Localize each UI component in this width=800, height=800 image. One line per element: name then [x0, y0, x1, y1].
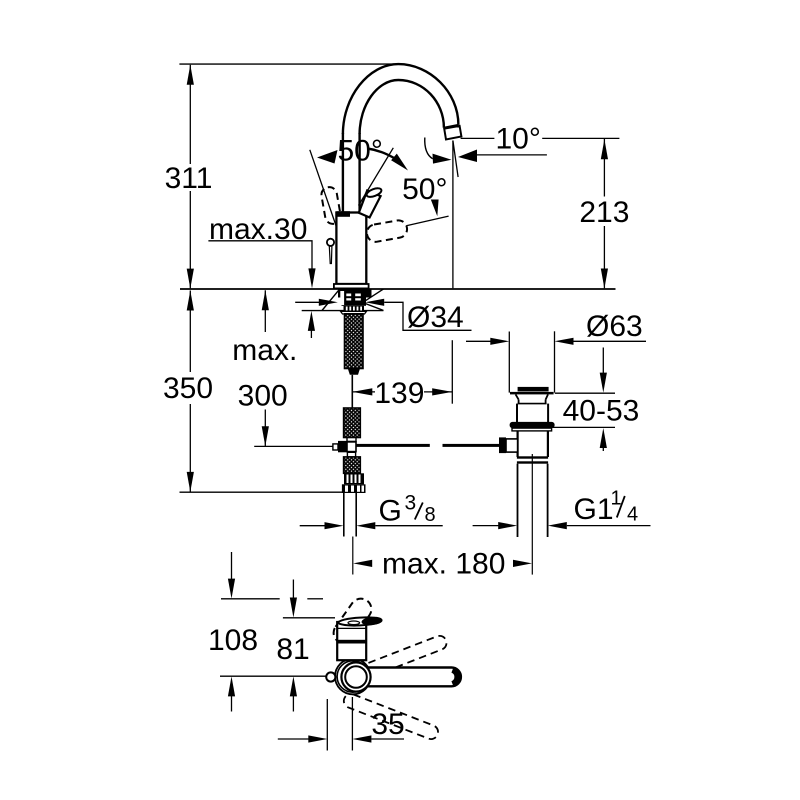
shank tip [348, 369, 360, 375]
knob stem [329, 246, 332, 263]
svg-text:81: 81 [276, 633, 309, 666]
spout joint line [444, 125, 459, 128]
svg-text:10°: 10° [496, 123, 541, 156]
body top notch [336, 211, 350, 217]
40-53 up arrow [600, 428, 607, 448]
pivot boss [345, 666, 367, 688]
plan spout band [337, 640, 366, 644]
dashed lever right position [366, 219, 409, 243]
neck joint line [518, 403, 547, 405]
faucet body [336, 213, 366, 285]
dim 311 line lower [189, 191, 191, 288]
flex hose right line [355, 493, 357, 537]
139 right arrow [432, 388, 452, 395]
escutcheon outer circle [335, 659, 371, 695]
Ø34 dim tail left [295, 301, 319, 303]
escutcheon [334, 284, 369, 288]
plan knob [326, 672, 335, 681]
81 down arrow tail [292, 580, 294, 600]
max.300 down arrow [262, 426, 269, 446]
flange taper right [546, 394, 548, 399]
upper hose hatch block [344, 408, 361, 438]
311 up arrow [187, 65, 194, 85]
311 down arrow [187, 269, 194, 289]
plan lens white inner [348, 621, 360, 625]
max180 left arrow [353, 560, 372, 567]
81 top reference line [283, 617, 335, 619]
hose centerline [352, 537, 354, 575]
tailpipe sides [517, 464, 519, 537]
svg-text:1: 1 [611, 488, 622, 510]
40-53 down arrow tail [602, 348, 604, 375]
riser pipe left [342, 133, 344, 213]
svg-text:G: G [379, 495, 402, 528]
max.30 underline leader [208, 241, 312, 270]
50deg no.2 arrowhead [431, 200, 439, 217]
Ø63 extension right [554, 331, 556, 392]
svg-text:Ø63: Ø63 [586, 310, 643, 343]
G3/8 dim tail left [300, 525, 325, 527]
dim 139 line left [352, 391, 375, 393]
50deg no.1 right arc [368, 149, 397, 160]
stack ribs block [344, 306, 365, 311]
81 up arrow [290, 676, 297, 696]
35 dim tail left [278, 738, 309, 740]
angle leg line C (dashed lever axis) [406, 216, 448, 226]
spout curve inner [360, 80, 444, 134]
stack slots row1 [346, 294, 351, 297]
108 down arrow tail [231, 552, 233, 580]
Ø34 left arrow [319, 299, 338, 306]
max.300 bottom reference line [254, 445, 340, 447]
lever pivot cap [341, 662, 370, 691]
stack slot vertical [340, 291, 344, 305]
350 down arrow [187, 472, 194, 492]
lower hose hatch block [344, 457, 361, 473]
plan spout rect [337, 622, 366, 660]
upper body sides [516, 404, 518, 423]
108 up arrow [228, 676, 235, 696]
ribbed coupling [344, 473, 364, 484]
plan spout joint line [337, 627, 366, 629]
Ø34 right arrow [365, 299, 384, 306]
dashed lever up position [350, 634, 448, 683]
deck break diagonal right upper [365, 289, 384, 301]
seal ring [510, 422, 555, 428]
G3/8 left arrow [325, 522, 344, 529]
supply tube [351, 375, 353, 408]
drain coupling white [506, 439, 518, 452]
G3/8 right arrow [356, 522, 375, 529]
dim 311 line upper [189, 65, 191, 164]
350 bottom reference line [180, 491, 343, 493]
G1 1/4 dim tail left [473, 525, 499, 527]
drain plug cap [518, 387, 549, 392]
lever cap ellipse [365, 187, 382, 199]
washer flange [341, 311, 367, 314]
40-53 top reference [555, 392, 615, 394]
svg-text:G1: G1 [574, 493, 614, 526]
35 extension left [326, 699, 328, 751]
svg-text:8: 8 [425, 504, 436, 526]
G1 1/4 left arrow [498, 522, 517, 529]
35 extension right [351, 697, 353, 751]
Ø63 extension left [508, 332, 510, 393]
drain coupling black [499, 437, 506, 453]
lever bar [343, 668, 461, 687]
10deg left arrowhead [433, 154, 452, 164]
35 left arrow [308, 735, 327, 742]
40-53 down arrow [600, 373, 607, 393]
10deg right arrowhead [458, 150, 477, 163]
svg-text:40-53: 40-53 [563, 395, 640, 428]
108 top reference line seg2 [307, 598, 323, 600]
spout curve outer [343, 64, 459, 134]
angle leg line B (right, along lever) [359, 148, 394, 206]
svg-text:213: 213 [579, 196, 629, 229]
Ø63 dim tail right [574, 340, 647, 342]
threaded shank [345, 314, 364, 369]
139 left arrow [352, 388, 372, 395]
dim 350 line upper [189, 291, 191, 373]
mounting stack block [338, 290, 372, 298]
drain centerline [531, 454, 533, 575]
G3/8 dim tail right [375, 525, 442, 527]
10deg label left line [461, 137, 495, 139]
svg-text:Ø34: Ø34 [407, 301, 464, 334]
G1 1/4 dim tail right [567, 525, 651, 527]
svg-text:311: 311 [165, 162, 213, 195]
coupling nut [342, 484, 366, 493]
drain flange plate [510, 392, 554, 395]
svg-text:35: 35 [371, 708, 404, 741]
clevis small left [333, 444, 338, 450]
center reference line [220, 675, 327, 677]
max.30 down arrow [308, 268, 315, 288]
water stream vertical line upper [452, 141, 454, 289]
clevis black [338, 441, 347, 452]
Ø63 dim tail left [466, 340, 491, 342]
50deg no.1 right arrowhead [391, 154, 408, 171]
213 down arrow [601, 269, 608, 289]
svg-text:max.: max. [232, 334, 297, 367]
solid lever [359, 191, 381, 218]
350 up arrow [187, 291, 194, 311]
max.300 dim line upper [264, 290, 266, 332]
svg-text:350: 350 [163, 372, 213, 405]
deck break diagonal right lower [365, 303, 384, 310]
svg-text:108: 108 [208, 624, 258, 657]
escutcheon inner circle [337, 661, 368, 692]
svg-text:50°: 50° [402, 173, 447, 206]
35 right arrow [352, 735, 371, 742]
deck bottom line [302, 310, 384, 312]
10deg label right line [542, 137, 619, 139]
svg-text:4: 4 [627, 504, 638, 526]
stem below clevis [347, 452, 355, 457]
flex hose left line [343, 493, 345, 537]
pop-up rod left segment [356, 444, 430, 447]
dim 350 line lower [189, 404, 191, 492]
40-53 bottom reference [552, 426, 615, 428]
10deg horizontal reference line [476, 154, 547, 156]
water stream vertical line lower [451, 340, 453, 404]
svg-text:max. 180: max. 180 [382, 548, 505, 581]
svg-text:300: 300 [238, 380, 288, 413]
108 down arrow [228, 579, 235, 599]
50deg no.1 left arrowhead [317, 150, 338, 164]
dashed lever left position [320, 186, 342, 225]
max180 right arrow [513, 560, 532, 567]
Ø63 left arrow [490, 338, 509, 345]
lower body sides [516, 431, 518, 457]
Ø34 leader [384, 302, 471, 330]
neck sides [518, 400, 520, 404]
max.300 dim line lower [264, 410, 266, 447]
countertop line [180, 288, 616, 290]
deck break diagonal left [322, 291, 338, 311]
213 up arrow [601, 139, 608, 159]
connector [347, 438, 356, 442]
ring lower band [512, 428, 552, 431]
valve bottom joint lines [517, 456, 548, 458]
aerator cap [444, 126, 461, 140]
Ø63 right arrow [555, 338, 574, 345]
pop-up knob on body [327, 239, 334, 246]
angle leg line A (left) [310, 150, 337, 227]
plan aerator lens white [338, 616, 382, 626]
G1 1/4 right arrow [548, 522, 567, 529]
svg-text:3: 3 [405, 492, 417, 515]
svg-text:139: 139 [374, 377, 424, 410]
riser pipe right [358, 133, 360, 212]
dimension 213 line lower [603, 226, 605, 288]
dimension 213 line upper [603, 139, 605, 197]
108 top reference line seg1 [221, 598, 280, 600]
81 down arrow [290, 598, 297, 618]
flange taper left [516, 394, 519, 399]
top reference line (311 upper extension) [179, 63, 394, 65]
lever end black crescent [453, 670, 458, 684]
dashed swivel spout [329, 595, 375, 648]
dim 139 line right [424, 391, 452, 393]
clevis white [347, 442, 356, 452]
stack slots row2 [346, 298, 351, 300]
max.30 bottom up arrow [308, 311, 315, 331]
dashed lever down position [342, 692, 440, 741]
pop-up rod right segment [443, 444, 500, 447]
max.300 up arrow [262, 290, 269, 310]
35 dim tail right [371, 738, 404, 740]
10deg annotation arc [425, 138, 433, 159]
plan lens black [361, 616, 383, 626]
10deg tilted outlet axis line [453, 141, 458, 178]
